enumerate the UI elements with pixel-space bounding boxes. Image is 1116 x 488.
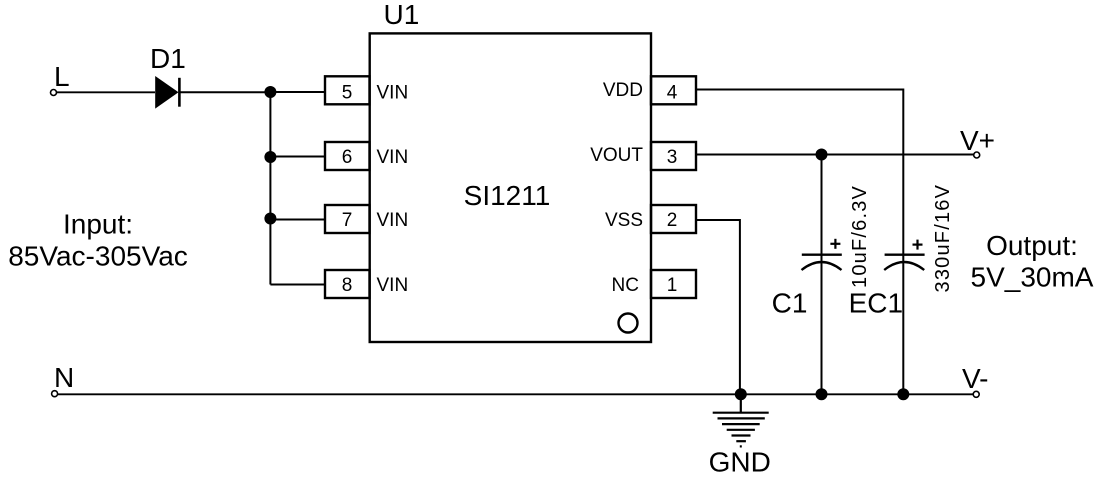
wire C1 vertical <box>821 155 823 395</box>
svg-text:D1: D1 <box>150 43 186 74</box>
wire VOUT pin3 to V+ terminal <box>696 154 974 156</box>
capacitor EC1 curved plate <box>884 262 924 270</box>
terminal V+ <box>974 152 980 158</box>
pin 1 indicator circle <box>619 314 638 333</box>
wire bus to pin6 <box>270 156 325 158</box>
ground <box>713 394 769 446</box>
svg-text:8: 8 <box>342 275 353 296</box>
capacitor C1 plate <box>802 253 842 255</box>
wire L to diode <box>57 91 156 93</box>
pin 1 box <box>651 270 696 298</box>
svg-text:5: 5 <box>342 83 353 104</box>
svg-text:Input:: Input: <box>63 209 133 240</box>
svg-text:3: 3 <box>667 147 678 168</box>
wire input bus vertical <box>269 92 271 285</box>
terminal V- <box>973 391 979 397</box>
svg-text:VDD: VDD <box>603 80 643 101</box>
pin 4 box <box>651 76 696 104</box>
svg-text:330uF/16V: 330uF/16V <box>932 184 954 293</box>
svg-text:5V_30mA: 5V_30mA <box>971 262 1094 293</box>
EC1 plus sign <box>913 240 923 250</box>
svg-text:2: 2 <box>667 210 678 231</box>
node junction bus pin6 <box>264 151 276 163</box>
terminal N <box>52 391 58 397</box>
svg-text:Output:: Output: <box>986 230 1078 261</box>
svg-text:N: N <box>54 362 74 393</box>
svg-text:GND: GND <box>709 447 771 478</box>
pin 5 box <box>325 76 370 104</box>
pin 7 box <box>325 205 370 233</box>
svg-text:4: 4 <box>667 83 678 104</box>
pin 6 box <box>325 142 370 170</box>
svg-text:C1: C1 <box>772 288 808 319</box>
node junction EC1 bottom <box>897 388 909 400</box>
pin 8 box <box>325 270 370 298</box>
node junction C1 bottom <box>816 388 828 400</box>
op-amp U1 body <box>370 33 651 342</box>
wire bus to pin7 <box>270 219 325 221</box>
svg-text:6: 6 <box>342 147 353 168</box>
capacitor EC1 plate <box>885 253 925 255</box>
wire VSS pin2 down to ground <box>696 220 740 394</box>
pin 3 box <box>651 142 696 170</box>
svg-text:7: 7 <box>342 210 353 231</box>
pin 2 box <box>651 205 696 233</box>
wire bus to pin8 <box>270 284 325 286</box>
capacitor C1 curved plate <box>802 262 842 270</box>
svg-text:VOUT: VOUT <box>590 145 643 166</box>
svg-text:1: 1 <box>667 275 678 296</box>
svg-text:VIN: VIN <box>377 83 409 104</box>
wire bus to pin5 <box>270 91 325 93</box>
wire diode to bus <box>180 91 270 93</box>
svg-text:VIN: VIN <box>377 275 409 296</box>
svg-text:V-: V- <box>962 363 988 394</box>
svg-text:10uF/6.3V: 10uF/6.3V <box>849 185 871 288</box>
terminal L <box>51 90 57 96</box>
node junction ground <box>735 388 747 400</box>
wire N to V- <box>58 393 974 395</box>
wire VDD pin4 to EC1 top <box>696 90 903 395</box>
svg-text:SI1211: SI1211 <box>464 180 551 211</box>
svg-text:VIN: VIN <box>377 210 409 231</box>
svg-text:VSS: VSS <box>605 210 643 231</box>
svg-text:85Vac-305Vac: 85Vac-305Vac <box>8 241 188 272</box>
svg-text:VIN: VIN <box>377 147 409 168</box>
node junction bus pin7 <box>264 213 276 225</box>
diode D1 <box>155 76 179 109</box>
svg-text:V+: V+ <box>960 125 995 156</box>
svg-text:L: L <box>54 61 70 92</box>
svg-text:EC1: EC1 <box>849 288 903 319</box>
C1 plus sign <box>830 239 840 249</box>
svg-text:NC: NC <box>612 275 639 296</box>
node junction VOUT C1 <box>816 149 828 161</box>
node junction bus pin5 <box>264 86 276 98</box>
svg-text:U1: U1 <box>384 0 420 30</box>
